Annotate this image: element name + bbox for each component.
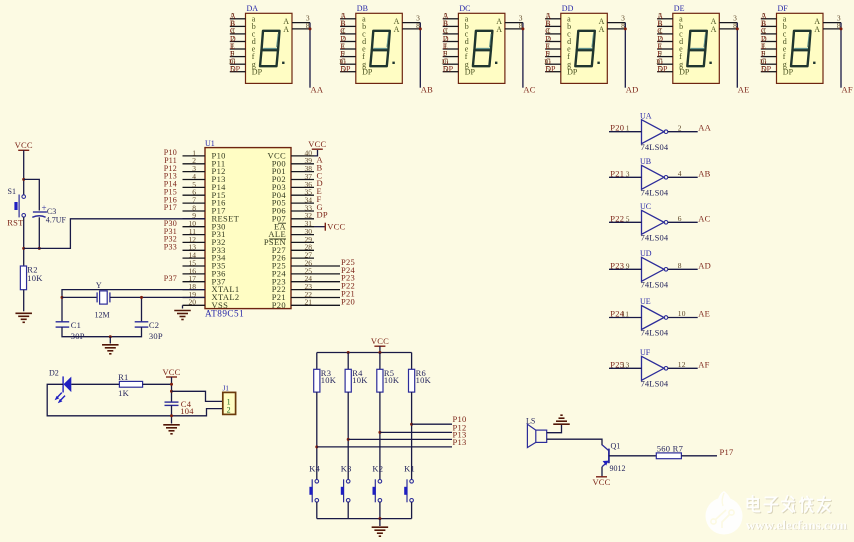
svg-text:10: 10 — [678, 309, 686, 318]
wire — [172, 391, 223, 401]
wire — [624, 23, 626, 88]
wire — [171, 377, 173, 402]
wire — [24, 179, 40, 210]
wire — [316, 353, 318, 370]
junction — [378, 517, 381, 520]
wire — [309, 23, 311, 88]
resistor R6 10K — [409, 369, 415, 392]
wire — [317, 518, 412, 520]
svg-text:Y: Y — [96, 281, 102, 290]
wire — [62, 296, 97, 298]
7-segment display DE — [656, 4, 738, 83]
svg-text:U1: U1 — [205, 139, 215, 148]
svg-text:12: 12 — [678, 360, 686, 369]
wire — [317, 446, 452, 448]
junction — [378, 351, 381, 354]
svg-text:DP: DP — [230, 65, 241, 74]
svg-text:1: 1 — [626, 124, 630, 133]
svg-text:AB: AB — [698, 168, 710, 178]
svg-text:VCC: VCC — [327, 222, 345, 232]
wire — [171, 405, 173, 423]
wire — [736, 23, 738, 88]
svg-text:5: 5 — [626, 214, 630, 223]
power VCC — [371, 336, 389, 346]
svg-text:DA: DA — [247, 4, 259, 13]
svg-text:DP: DP — [362, 67, 373, 76]
svg-text:VCC: VCC — [308, 139, 326, 149]
svg-text:AF: AF — [698, 359, 709, 369]
resistor R2 10K — [15, 111, 848, 536]
svg-text:+: + — [42, 203, 47, 213]
svg-text:A: A — [394, 25, 400, 34]
svg-text:AE: AE — [698, 309, 710, 319]
power VCC — [15, 140, 33, 150]
svg-text:P20: P20 — [341, 296, 355, 306]
junction — [61, 296, 64, 299]
power VCC — [162, 367, 180, 377]
svg-text:A: A — [814, 25, 820, 34]
svg-text:K4: K4 — [309, 463, 320, 473]
wire — [379, 392, 381, 479]
svg-text:DP: DP — [761, 65, 772, 74]
junction — [22, 247, 25, 250]
junction — [419, 27, 422, 30]
svg-text:10K: 10K — [352, 375, 368, 385]
svg-text:P20: P20 — [610, 123, 624, 133]
svg-text:C2: C2 — [149, 320, 159, 330]
svg-text:A: A — [283, 25, 289, 34]
svg-text:P37: P37 — [164, 274, 177, 283]
svg-text:74LS04: 74LS04 — [641, 188, 669, 198]
wire — [547, 439, 602, 445]
wire — [668, 176, 698, 178]
svg-text:DP: DP — [340, 65, 351, 74]
junction — [347, 351, 350, 354]
wire — [23, 217, 25, 266]
capacitor C4 104 — [165, 402, 179, 405]
svg-text:104: 104 — [180, 406, 194, 416]
inverter UD 74LS04 — [640, 249, 669, 290]
svg-text:6: 6 — [678, 214, 682, 223]
svg-text:10K: 10K — [321, 375, 337, 385]
wire — [347, 353, 349, 370]
resistor R5 10K — [377, 369, 383, 392]
svg-text:DP: DP — [679, 67, 690, 76]
svg-text:P17: P17 — [720, 447, 734, 457]
inverter UB 74LS04 — [640, 157, 669, 198]
svg-text:DP: DP — [657, 65, 668, 74]
inverter UA 74LS04 — [640, 111, 669, 151]
wire — [316, 392, 318, 479]
svg-text:AD: AD — [698, 260, 711, 270]
svg-text:P23: P23 — [610, 260, 624, 270]
junction — [22, 178, 25, 181]
inverter UE 74LS04 — [640, 297, 669, 338]
wire — [109, 337, 111, 344]
inverter UC 74LS04 — [640, 202, 669, 243]
svg-text:10K: 10K — [27, 273, 43, 283]
wire — [182, 305, 184, 308]
wire — [379, 346, 381, 352]
svg-text:R1: R1 — [118, 372, 128, 382]
wire — [419, 23, 421, 88]
junction — [309, 27, 312, 30]
wire — [143, 383, 172, 385]
svg-text:Q1: Q1 — [611, 441, 621, 450]
switch S1 — [8, 187, 16, 196]
svg-text:RST: RST — [7, 218, 24, 228]
wire — [142, 297, 206, 321]
svg-text:AD: AD — [626, 85, 639, 95]
wire — [24, 219, 205, 249]
wire — [411, 353, 413, 370]
wire — [609, 268, 642, 270]
ground — [372, 527, 389, 536]
wire — [411, 392, 413, 479]
junction — [521, 27, 524, 30]
crystal Y 12M — [95, 281, 110, 319]
svg-text:J1: J1 — [223, 385, 230, 393]
junction — [315, 445, 318, 448]
svg-text:10K: 10K — [416, 375, 432, 385]
ground — [163, 425, 180, 434]
svg-text:DE: DE — [674, 4, 685, 13]
svg-text:3: 3 — [626, 169, 630, 178]
wire — [522, 23, 524, 88]
svg-text:30P: 30P — [149, 331, 163, 341]
wire — [347, 502, 349, 518]
svg-text:2: 2 — [678, 123, 682, 132]
svg-text:VCC: VCC — [162, 367, 180, 377]
svg-text:DP: DP — [783, 67, 794, 76]
svg-text:UC: UC — [640, 202, 651, 211]
svg-text:AF: AF — [842, 85, 853, 95]
svg-text:74LS04: 74LS04 — [641, 142, 669, 152]
wire — [379, 519, 381, 526]
svg-text:A: A — [711, 25, 717, 34]
wire — [316, 502, 318, 518]
svg-text:UA: UA — [640, 111, 652, 120]
svg-text:AB: AB — [421, 85, 433, 95]
svg-text:P13: P13 — [453, 437, 467, 447]
wire — [379, 502, 381, 518]
wire — [609, 221, 642, 223]
svg-text:P22: P22 — [610, 213, 624, 223]
wire — [412, 423, 452, 425]
wire — [348, 438, 452, 440]
wire — [110, 296, 142, 298]
wire — [547, 424, 562, 433]
junction — [140, 296, 143, 299]
svg-text:DF: DF — [778, 4, 789, 13]
wire — [840, 23, 842, 88]
svg-text:DD: DD — [562, 4, 574, 13]
svg-text:11: 11 — [622, 310, 630, 319]
svg-text:9: 9 — [626, 261, 630, 270]
wire — [609, 317, 642, 319]
svg-text:VCC: VCC — [371, 336, 389, 346]
watermark text — [746, 496, 848, 533]
svg-text:P20: P20 — [272, 300, 286, 310]
svg-text:S1: S1 — [8, 187, 16, 196]
ground — [553, 415, 570, 424]
svg-text:DP: DP — [443, 65, 454, 74]
junction — [170, 383, 173, 386]
inverter UF 74LS04 — [640, 348, 669, 389]
ground — [15, 313, 32, 322]
svg-text:8: 8 — [678, 261, 682, 270]
svg-text:13: 13 — [622, 360, 630, 369]
svg-text:1K: 1K — [118, 388, 130, 398]
svg-text:UB: UB — [640, 157, 651, 166]
wire — [71, 383, 119, 385]
junction — [624, 27, 627, 30]
svg-text:K2: K2 — [372, 463, 383, 473]
wire — [23, 150, 25, 194]
resistor R4 10K — [345, 369, 351, 392]
speaker LS — [526, 416, 547, 447]
resistor R3 10K — [314, 369, 320, 392]
7-segment display DC — [441, 4, 523, 83]
7-segment display DA — [228, 4, 310, 83]
svg-text:DP: DP — [465, 67, 476, 76]
capacitor C2 30P — [135, 322, 149, 327]
resistor R1 1K — [119, 381, 142, 387]
wire — [38, 217, 40, 248]
junction — [736, 27, 739, 30]
svg-text:74LS04: 74LS04 — [641, 233, 669, 243]
svg-text:AA: AA — [311, 85, 324, 95]
svg-text:www.elecfans.com: www.elecfans.com — [746, 518, 847, 532]
svg-text:C1: C1 — [71, 320, 81, 330]
svg-text:AA: AA — [698, 123, 711, 133]
wire — [609, 176, 642, 178]
wire — [668, 131, 698, 133]
svg-text:20: 20 — [189, 298, 197, 307]
resistor R7 560 — [656, 453, 681, 459]
junction — [410, 423, 413, 426]
power VCC — [325, 222, 345, 232]
wire — [314, 226, 325, 228]
wire — [314, 150, 318, 156]
wire — [609, 367, 642, 369]
wire — [379, 353, 381, 370]
svg-text:AC: AC — [523, 85, 535, 95]
svg-text:A: A — [599, 25, 605, 34]
wire — [601, 467, 603, 477]
svg-text:2: 2 — [227, 406, 231, 415]
wire — [347, 392, 349, 479]
wire — [380, 431, 452, 433]
svg-text:30P: 30P — [71, 331, 85, 341]
ground — [102, 345, 119, 354]
svg-text:DC: DC — [459, 4, 470, 13]
svg-text:UD: UD — [640, 249, 652, 258]
svg-text:DP: DP — [545, 65, 556, 74]
wire — [317, 352, 412, 354]
svg-text:12M: 12M — [95, 311, 110, 320]
junction — [38, 247, 41, 250]
capacitor C3 4.7UF — [32, 203, 66, 224]
svg-text:560 R7: 560 R7 — [657, 443, 683, 453]
wire — [668, 367, 698, 369]
connector J1 — [223, 385, 236, 415]
svg-text:21: 21 — [305, 298, 313, 307]
svg-text:74LS04: 74LS04 — [641, 379, 669, 389]
svg-text:K1: K1 — [404, 463, 415, 473]
LED D2 — [49, 368, 71, 403]
svg-text:74LS04: 74LS04 — [641, 328, 669, 338]
svg-text:VCC: VCC — [15, 140, 33, 150]
svg-text:P21: P21 — [610, 168, 624, 178]
svg-text:D2: D2 — [49, 368, 59, 377]
capacitor C1 30P — [56, 322, 70, 327]
svg-text:4.7UF: 4.7UF — [46, 215, 67, 224]
power VCC — [308, 139, 326, 149]
junction — [170, 414, 173, 417]
svg-text:DB: DB — [357, 4, 368, 13]
power VCC — [592, 477, 610, 487]
watermark logo — [706, 491, 743, 535]
MCU U1 AT89C51 — [183, 139, 341, 319]
7-segment display DD — [544, 4, 626, 83]
svg-text:DP: DP — [252, 67, 263, 76]
junction — [378, 431, 381, 434]
pushbutton S1 contacts — [14, 195, 25, 218]
wire — [62, 290, 205, 322]
wire — [47, 384, 223, 416]
svg-text:VSS: VSS — [212, 300, 229, 310]
7-segment display DB — [339, 4, 421, 83]
svg-text:9012: 9012 — [610, 464, 626, 473]
svg-text:P33: P33 — [164, 242, 177, 251]
svg-text:K3: K3 — [341, 463, 352, 473]
transistor Q1 9012 — [602, 441, 626, 473]
7-segment display DF — [759, 4, 841, 83]
svg-text:DP: DP — [567, 67, 578, 76]
wire — [411, 502, 413, 518]
wire — [668, 268, 698, 270]
svg-text:10K: 10K — [384, 375, 400, 385]
wire — [681, 455, 717, 457]
svg-text:74LS04: 74LS04 — [641, 280, 669, 290]
junction — [109, 335, 112, 338]
wire — [609, 131, 642, 133]
wire — [62, 327, 142, 337]
junction — [840, 27, 843, 30]
svg-text:4: 4 — [678, 169, 682, 178]
svg-text:A: A — [496, 25, 502, 34]
wire — [23, 290, 25, 312]
ground — [174, 311, 191, 320]
svg-text:DP: DP — [317, 210, 328, 220]
svg-text:P17: P17 — [164, 203, 177, 212]
svg-text:VCC: VCC — [592, 477, 610, 487]
junction — [170, 390, 173, 393]
wire — [668, 221, 698, 223]
svg-text:AE: AE — [738, 85, 750, 95]
junction — [347, 438, 350, 441]
wire — [668, 317, 698, 319]
wire — [609, 455, 656, 457]
svg-text:AC: AC — [698, 213, 710, 223]
